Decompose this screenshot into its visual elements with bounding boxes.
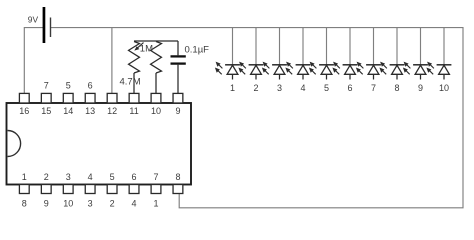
- svg-text:4: 4: [300, 83, 305, 93]
- svg-text:9: 9: [44, 199, 49, 209]
- svg-text:6: 6: [132, 172, 137, 182]
- svg-text:7: 7: [153, 172, 158, 182]
- svg-text:7: 7: [371, 83, 376, 93]
- svg-text:4: 4: [132, 199, 137, 209]
- svg-text:8: 8: [22, 199, 27, 209]
- svg-text:7: 7: [44, 81, 49, 91]
- svg-text:15: 15: [41, 106, 51, 116]
- svg-text:6: 6: [88, 81, 93, 91]
- svg-text:10: 10: [151, 106, 161, 116]
- svg-text:2: 2: [110, 199, 115, 209]
- svg-text:11: 11: [129, 106, 138, 116]
- svg-text:5: 5: [110, 172, 115, 182]
- svg-text:3: 3: [88, 199, 93, 209]
- svg-text:1: 1: [22, 172, 27, 182]
- svg-text:3: 3: [277, 83, 282, 93]
- svg-text:1: 1: [230, 83, 235, 93]
- svg-text:13: 13: [85, 106, 95, 116]
- svg-text:2: 2: [253, 83, 258, 93]
- svg-text:5: 5: [66, 81, 71, 91]
- svg-text:9V: 9V: [28, 14, 39, 24]
- svg-text:10: 10: [63, 199, 73, 209]
- svg-text:14: 14: [63, 106, 73, 116]
- svg-text:5: 5: [324, 83, 329, 93]
- svg-text:9: 9: [175, 106, 180, 116]
- svg-text:4.7M: 4.7M: [120, 77, 141, 88]
- svg-text:8: 8: [394, 83, 399, 93]
- svg-text:0.1µF: 0.1µF: [185, 45, 210, 56]
- svg-text:10: 10: [439, 83, 449, 93]
- svg-text:1: 1: [153, 199, 158, 209]
- svg-text:16: 16: [19, 106, 29, 116]
- svg-text:1M: 1M: [140, 44, 153, 55]
- svg-text:12: 12: [107, 106, 117, 116]
- svg-text:4: 4: [88, 172, 93, 182]
- svg-text:6: 6: [347, 83, 352, 93]
- svg-text:9: 9: [418, 83, 423, 93]
- svg-text:3: 3: [66, 172, 71, 182]
- svg-text:8: 8: [175, 172, 180, 182]
- svg-text:2: 2: [44, 172, 49, 182]
